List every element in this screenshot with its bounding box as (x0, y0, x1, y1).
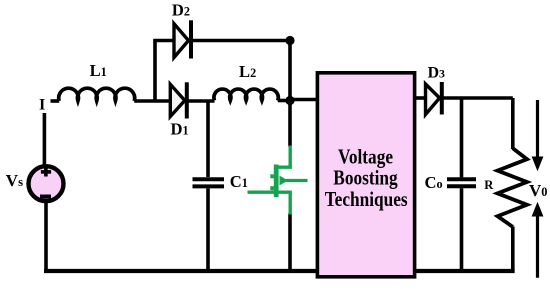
svg-text:V0: V0 (529, 181, 547, 200)
svg-text:R: R (484, 178, 494, 192)
svg-text:D3: D3 (428, 65, 445, 82)
svg-text:L1: L1 (90, 61, 107, 80)
svg-text:C1: C1 (230, 172, 248, 191)
svg-text:Techniques: Techniques (325, 188, 408, 211)
svg-text:Voltage: Voltage (338, 146, 393, 169)
svg-text:Vs: Vs (6, 171, 23, 190)
svg-text:I: I (39, 95, 45, 113)
svg-text:Co: Co (425, 173, 443, 192)
svg-text:L2: L2 (239, 62, 256, 81)
svg-text:Boosting: Boosting (333, 167, 398, 190)
svg-text:D2: D2 (172, 0, 190, 19)
svg-text:D1: D1 (171, 119, 189, 138)
